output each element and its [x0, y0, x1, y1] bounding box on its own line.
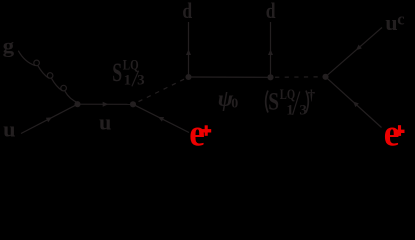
svg-text:u: u	[3, 117, 15, 142]
wire u^c	[326, 28, 383, 77]
arrow on u^c pointing to vertex	[354, 45, 362, 52]
svg-text:u: u	[99, 110, 111, 135]
label e+ right red	[384, 113, 405, 155]
svg-text:3: 3	[137, 73, 145, 89]
arrow on u middle	[103, 102, 109, 107]
scalar S dashed propagator	[139, 77, 189, 102]
vertex V5	[322, 74, 328, 80]
wire u incoming	[21, 104, 78, 133]
label psi0	[218, 86, 239, 112]
wire e+ right	[326, 77, 382, 128]
svg-text:u: u	[385, 10, 397, 35]
gluon g curls	[18, 51, 78, 103]
vertex V3	[185, 74, 191, 80]
svg-text:1: 1	[124, 73, 132, 89]
scalar S-dagger dashed propagator	[275, 76, 325, 78]
arrow on d left	[186, 49, 191, 55]
label S LQ 1/3	[112, 57, 144, 88]
wire d left	[188, 22, 190, 77]
svg-text:LQ: LQ	[280, 87, 296, 103]
label u^c	[385, 9, 404, 34]
label e+ left red	[189, 112, 211, 154]
vertex V4	[267, 74, 273, 80]
svg-text:d: d	[266, 0, 276, 23]
wire u middle	[78, 103, 134, 105]
svg-text:S: S	[268, 86, 279, 115]
svg-text:1: 1	[286, 102, 294, 118]
wire d right	[270, 22, 272, 77]
vertex V1	[74, 101, 80, 107]
svg-text:S: S	[112, 58, 122, 87]
arrow on e+ left pointing to vertex	[157, 115, 164, 122]
svg-text:0: 0	[231, 97, 238, 112]
svg-text:LQ: LQ	[123, 57, 139, 73]
svg-text:†: †	[308, 88, 316, 104]
svg-text:d: d	[182, 0, 192, 23]
wire e+ left	[133, 104, 189, 132]
vertex V2	[130, 101, 136, 107]
wire psi0 propagator	[189, 76, 271, 78]
svg-text:c: c	[397, 9, 404, 28]
arrow on d right	[268, 49, 273, 55]
svg-text:g: g	[3, 37, 15, 58]
arrow on u incoming	[46, 115, 53, 122]
arrow on e+ right pointing to vertex	[351, 100, 359, 107]
label (S LQ 1/3) dagger	[266, 86, 316, 118]
svg-text:3: 3	[299, 102, 307, 118]
